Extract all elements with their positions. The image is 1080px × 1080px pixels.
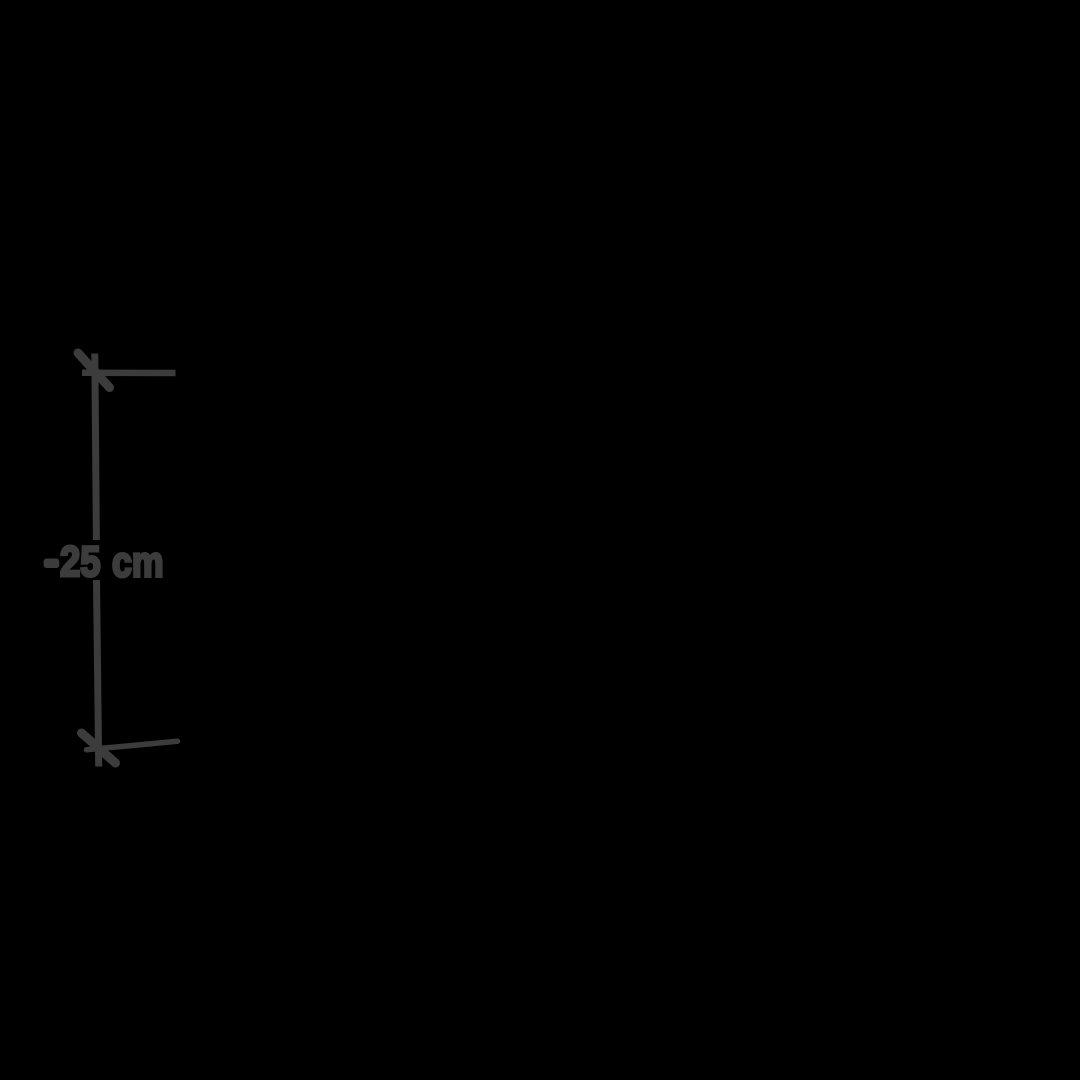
svg-text:cm: cm <box>112 539 164 587</box>
svg-text:25: 25 <box>60 538 101 586</box>
